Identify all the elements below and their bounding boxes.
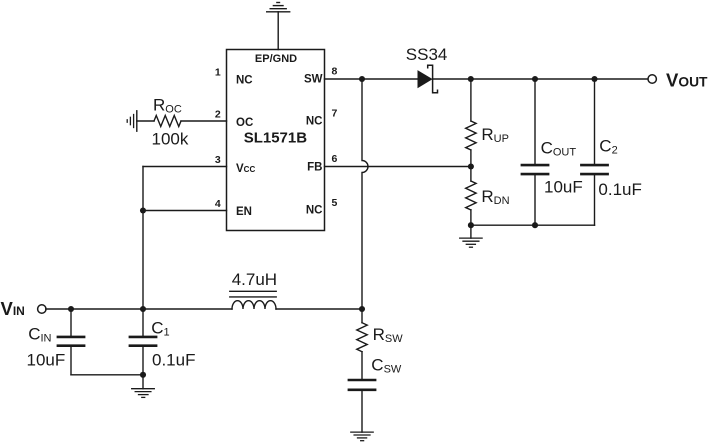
wire RUP to FB node — [470, 150, 472, 181]
svg-text:0.1uF: 0.1uF — [152, 350, 195, 369]
svg-text:C1: C1 — [151, 318, 169, 338]
wire ROC to pin2 OC — [181, 120, 227, 122]
resistor RDN — [466, 181, 476, 210]
svg-text:SL1571B: SL1571B — [244, 129, 308, 146]
capacitor CIN — [58, 309, 84, 375]
ground (below C1) — [132, 389, 155, 398]
resistor RUP — [466, 121, 476, 150]
svg-text:7: 7 — [332, 108, 338, 120]
wire pin8 SW to diode — [325, 78, 418, 80]
capacitor COUT — [522, 79, 548, 225]
wire pin3 VCC — [143, 166, 227, 168]
svg-text:2: 2 — [215, 108, 221, 120]
wire inductor to RSW node — [276, 308, 362, 310]
svg-text:VIN: VIN — [1, 298, 25, 319]
wire CSW to ground — [361, 391, 363, 432]
IC U1 SL1571B box — [227, 50, 325, 231]
svg-text:COUT: COUT — [541, 139, 577, 159]
svg-text:VOUT: VOUT — [666, 69, 708, 90]
svg-text:CIN: CIN — [28, 324, 51, 344]
svg-text:FB: FB — [307, 162, 322, 174]
svg-text:NC: NC — [306, 116, 323, 128]
resistor ROC — [154, 116, 181, 127]
svg-text:10uF: 10uF — [544, 178, 583, 197]
wire diode cathode to VOUT terminal — [433, 78, 649, 80]
svg-text:RUP: RUP — [481, 125, 509, 145]
svg-text:4: 4 — [215, 198, 221, 210]
svg-text:8: 8 — [332, 66, 338, 78]
capacitor C2 — [581, 79, 607, 225]
wire VCC/EN rail down to VIN node — [142, 167, 144, 310]
svg-text:0.1uF: 0.1uF — [598, 180, 641, 199]
svg-text:EP/GND: EP/GND — [255, 53, 297, 65]
svg-text:SS34: SS34 — [406, 45, 448, 64]
svg-text:ROC: ROC — [153, 95, 182, 115]
svg-text:RDN: RDN — [481, 187, 509, 207]
wire FB pin6 to RUP/RDN junction — [325, 166, 471, 168]
svg-text:OC: OC — [236, 117, 253, 129]
svg-text:NC: NC — [306, 205, 323, 217]
svg-text:RSW: RSW — [373, 325, 404, 345]
svg-text:NC: NC — [236, 74, 253, 86]
svg-text:3: 3 — [215, 154, 221, 166]
svg-text:C2: C2 — [599, 136, 617, 156]
wire RSW to CSW — [361, 352, 363, 379]
svg-text:SW: SW — [304, 74, 323, 86]
svg-text:VCC: VCC — [236, 163, 255, 175]
diode D1 SS34 — [418, 65, 438, 92]
ground (below RDN) — [460, 238, 482, 247]
wire RDN to bottom rail — [470, 210, 472, 225]
capacitor CSW — [349, 380, 375, 390]
wire C1 to ground — [142, 375, 144, 389]
wire SW node down to RUP — [470, 79, 472, 121]
ground (ROC left, sideways) — [127, 111, 154, 131]
capacitor C1 — [130, 309, 156, 375]
resistor RSW — [357, 323, 367, 352]
terminal VOUT circle — [648, 75, 656, 83]
svg-text:5: 5 — [332, 197, 338, 209]
svg-text:1: 1 — [215, 66, 221, 78]
terminal VIN circle — [38, 305, 46, 313]
wire node to RSW — [361, 309, 363, 323]
wire RDN ground stem — [470, 225, 472, 238]
svg-text:100k: 100k — [152, 130, 189, 149]
wire bottom output rail — [471, 224, 595, 226]
node junction dots — [68, 76, 598, 378]
wire pin4 EN — [143, 210, 227, 212]
svg-text:4.7uH: 4.7uH — [232, 270, 277, 289]
ground (EP/GND top) — [267, 3, 290, 50]
wire CIN bottom rail to C1 — [71, 374, 143, 376]
wire SW vertical rail with hop over FB — [362, 79, 368, 309]
svg-text:EN: EN — [236, 206, 252, 218]
ground (below CSW) — [351, 432, 373, 441]
svg-text:10uF: 10uF — [27, 350, 66, 369]
wire VIN to inductor — [46, 308, 232, 310]
svg-text:CSW: CSW — [371, 355, 402, 375]
svg-text:6: 6 — [332, 153, 338, 165]
inductor L1 4.7uH — [230, 291, 276, 309]
